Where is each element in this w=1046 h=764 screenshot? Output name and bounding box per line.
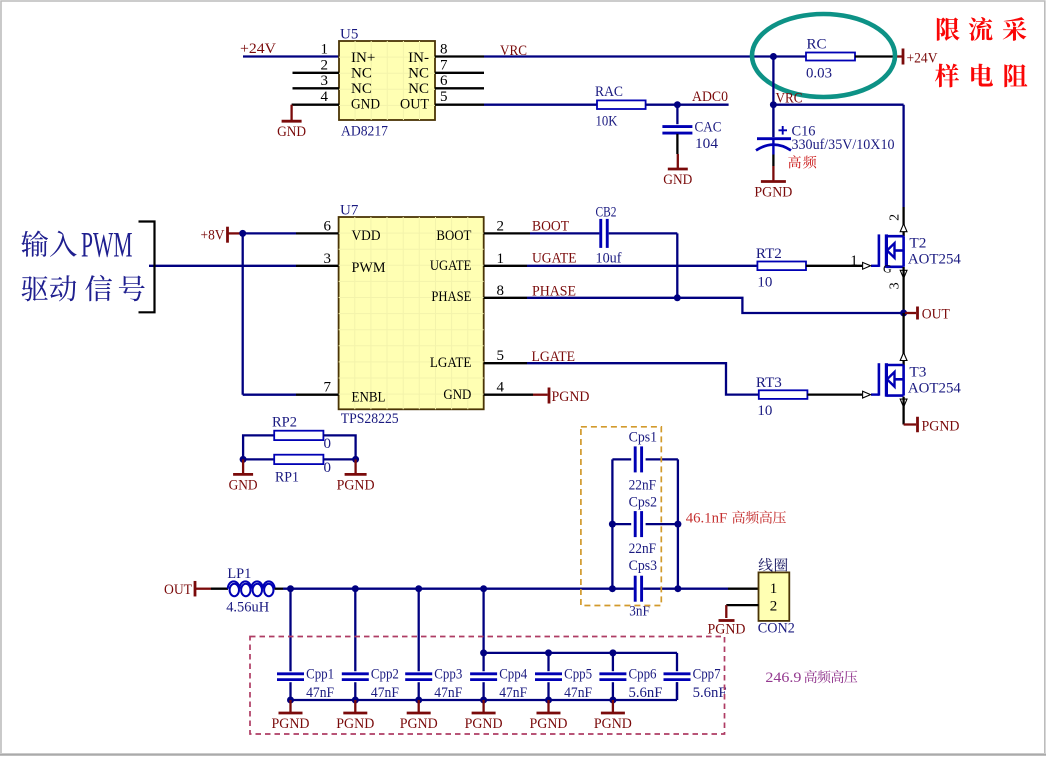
- svg-text:47nF: 47nF: [371, 685, 399, 701]
- svg-text:NC: NC: [351, 66, 372, 82]
- wire RP2 right: [323, 435, 355, 459]
- transistor T2: [878, 234, 881, 267]
- chip U5 grid: [354, 41, 356, 120]
- svg-text:10: 10: [757, 274, 772, 290]
- wire BOOT: [484, 232, 530, 234]
- ground symbol GND below RP1: [242, 459, 244, 473]
- node ADC0 junction: [674, 101, 681, 108]
- ground symbol PGND under Cpp at x=355.3: [354, 700, 356, 712]
- wire T2 source rail to OUT: [902, 267, 904, 313]
- svg-text:ADC0: ADC0: [692, 89, 728, 105]
- svg-text:246.9: 246.9: [765, 670, 801, 686]
- U7 pin4 GND wire: [484, 394, 533, 396]
- resistor RC 0.03: [806, 53, 855, 61]
- svg-text:T3: T3: [909, 364, 926, 380]
- svg-text:TPS28225: TPS28225: [341, 411, 399, 427]
- U5 pin 3 stub: [293, 87, 340, 89]
- power port PGND at U7 pin4: [548, 388, 551, 404]
- wire RC to +24V port: [855, 55, 895, 57]
- wire VRC net U5 pin8 to RC junction: [484, 55, 773, 57]
- svg-text:RT3: RT3: [756, 375, 782, 391]
- svg-text:+24V: +24V: [240, 41, 276, 57]
- capacitor Cpp5: [535, 672, 562, 675]
- wire Cps left rail: [611, 459, 613, 588]
- svg-text:GND: GND: [443, 387, 471, 403]
- svg-text:LP1: LP1: [227, 566, 251, 582]
- svg-text:PGND: PGND: [530, 716, 568, 732]
- wire Cpp top bus: [484, 652, 677, 654]
- capacitor C16 (polarized): [772, 105, 774, 138]
- svg-text:PGND: PGND: [708, 621, 746, 637]
- blue annotation line1: shu ru PWM: [21, 230, 48, 256]
- svg-text:330uf/35V/10X10: 330uf/35V/10X10: [792, 137, 895, 153]
- svg-text:VDD: VDD: [352, 228, 381, 244]
- svg-text:PGND: PGND: [754, 185, 792, 201]
- wire RT2 to T2 gate: [806, 265, 862, 267]
- wire +8V down to ENBL: [242, 233, 244, 394]
- node VRC-C16 junction: [770, 101, 777, 108]
- U5 pin 5 stub: [435, 104, 484, 106]
- capacitor Cpp3: [405, 672, 432, 675]
- svg-text:47nF: 47nF: [306, 685, 334, 701]
- svg-text:AD8217: AD8217: [341, 124, 388, 140]
- U7 pin3 stub: [296, 265, 339, 267]
- svg-text:NC: NC: [351, 81, 372, 97]
- red annotation line1 (xian liu cai): [937, 17, 960, 40]
- svg-text:7: 7: [324, 380, 332, 396]
- ground symbol PGND under Cpp at x=483.6: [482, 700, 484, 712]
- wire Cpp5 lead: [547, 682, 549, 700]
- svg-text:10K: 10K: [596, 114, 618, 130]
- svg-text:8: 8: [440, 42, 448, 58]
- svg-text:Cpp5: Cpp5: [564, 666, 592, 682]
- svg-text:2: 2: [770, 599, 778, 615]
- node top bus junctions: [480, 649, 487, 656]
- capacitor Cpp7: [664, 672, 691, 675]
- wire Cps right rail: [677, 459, 679, 588]
- svg-text:4: 4: [497, 380, 505, 396]
- wire LGATE to RT3: [484, 362, 527, 364]
- svg-text:RT2: RT2: [756, 246, 782, 262]
- svg-text:2: 2: [497, 219, 505, 235]
- wire PHASE: [484, 297, 527, 299]
- svg-text:8: 8: [497, 283, 505, 299]
- capacitor Cpp2: [342, 672, 369, 675]
- wire Cpp6 lead: [612, 682, 614, 700]
- svg-text:OUT: OUT: [164, 582, 192, 598]
- svg-text:10: 10: [757, 403, 772, 419]
- svg-text:IN+: IN+: [351, 50, 375, 66]
- wire VRC vertical rail: [772, 57, 774, 105]
- U7 pin7 stub: [296, 394, 339, 396]
- input bracket: [139, 222, 155, 313]
- capacitor Cpp6: [599, 672, 626, 675]
- svg-text:47nF: 47nF: [564, 685, 592, 701]
- capacitor Cps2: [612, 523, 631, 525]
- capacitor Cpp1: [277, 672, 304, 675]
- svg-text:PGND: PGND: [922, 418, 960, 434]
- power port PGND at T3: [916, 417, 919, 433]
- wire T3 source to PGND: [902, 397, 904, 425]
- wire Cpp3 drop: [418, 589, 420, 672]
- svg-text:5.6nF: 5.6nF: [693, 685, 727, 701]
- node +8V junction: [239, 230, 246, 237]
- svg-text:OUT: OUT: [400, 97, 429, 113]
- svg-text:PGND: PGND: [465, 716, 503, 732]
- ground symbol GND at U5 pin 4: [290, 105, 292, 121]
- svg-text:0.03: 0.03: [806, 66, 832, 82]
- svg-text:6: 6: [324, 219, 332, 235]
- wire RT3 to T3 gate: [807, 393, 862, 395]
- red annotation line2 (yang dian zu): [935, 64, 959, 88]
- wire Cpp7 lead: [676, 682, 678, 700]
- wire Cpp3 lead: [418, 682, 420, 700]
- wire Cpp5 drop: [547, 653, 549, 671]
- ground symbol PGND under Cpp at x=290.5: [289, 700, 291, 712]
- svg-text:BOOT: BOOT: [436, 228, 471, 244]
- wire ADC0 stub: [677, 104, 728, 106]
- svg-text:GND: GND: [663, 172, 692, 188]
- C16 plus sign: [779, 129, 788, 131]
- power port OUT: [905, 312, 916, 314]
- svg-text:UGATE: UGATE: [430, 258, 472, 274]
- wire PWM input: [149, 265, 296, 267]
- svg-text:104: 104: [695, 136, 719, 152]
- capacitor CB2: [599, 219, 602, 248]
- svg-text:PGND: PGND: [336, 716, 374, 732]
- wire RP1 right: [323, 458, 355, 460]
- svg-text:PHASE: PHASE: [431, 289, 471, 305]
- svg-text:PGND: PGND: [594, 716, 632, 732]
- svg-text:46.1nF: 46.1nF: [686, 511, 728, 527]
- wire junction to RC: [773, 55, 806, 57]
- svg-text:6: 6: [440, 73, 448, 89]
- svg-text:0: 0: [324, 436, 332, 452]
- svg-text:GND: GND: [351, 97, 380, 113]
- node OUT junction: [900, 310, 907, 317]
- svg-text:GND: GND: [229, 477, 258, 493]
- svg-text:Cps2: Cps2: [629, 495, 658, 511]
- svg-text:U7: U7: [340, 203, 359, 219]
- wire UGATE to RT2: [484, 265, 527, 267]
- svg-text:G: G: [883, 261, 892, 275]
- U5 pin 8 stub: [435, 55, 484, 57]
- U5 pin 2 stub: [293, 72, 340, 74]
- capacitor CAC: [676, 105, 678, 125]
- svg-text:1: 1: [770, 581, 778, 597]
- svg-text:NC: NC: [408, 66, 429, 82]
- svg-text:AOT254: AOT254: [908, 252, 961, 268]
- svg-text:LGATE: LGATE: [430, 355, 472, 371]
- wire OUT bus: [275, 588, 283, 590]
- svg-text:1: 1: [321, 42, 329, 58]
- U5 pin 6 stub: [435, 87, 484, 89]
- svg-text:AOT254: AOT254: [908, 380, 961, 396]
- wire Cpp2 drop: [354, 589, 356, 672]
- chip U7 grid: [354, 217, 356, 409]
- svg-text:5.6nF: 5.6nF: [629, 685, 663, 701]
- svg-text:Cps1: Cps1: [629, 429, 658, 445]
- svg-text:BOOT: BOOT: [532, 219, 569, 235]
- svg-text:PWM: PWM: [81, 225, 133, 265]
- svg-text:3: 3: [888, 282, 903, 289]
- transistor T3: [878, 363, 881, 396]
- svg-text:10uf: 10uf: [596, 251, 622, 267]
- wire Cpp1 drop: [289, 589, 291, 672]
- wire +24V to U5 pin1: [243, 55, 339, 57]
- svg-text:OUT: OUT: [922, 306, 950, 322]
- svg-text:RAC: RAC: [595, 84, 623, 100]
- C16 note gaopin (red): [788, 155, 801, 168]
- node Cps2 junctions: [609, 521, 616, 528]
- svg-text:RP2: RP2: [272, 415, 297, 431]
- U5 pin 7 stub: [435, 72, 484, 74]
- resistor RP2: [274, 431, 323, 440]
- svg-text:1: 1: [497, 251, 505, 267]
- highlight ellipse around RC: [752, 14, 895, 97]
- blue annotation line2: qu dong xin hao: [22, 276, 48, 301]
- svg-text:47nF: 47nF: [499, 685, 527, 701]
- resistor RAC: [597, 100, 646, 109]
- svg-text:T2: T2: [909, 236, 926, 252]
- filter box (magenta dashed): [250, 637, 725, 735]
- svg-text:Cpp6: Cpp6: [629, 666, 657, 682]
- svg-text:ENBL: ENBL: [352, 389, 386, 405]
- svg-text:7: 7: [440, 58, 448, 74]
- wire OUT to T3 drain rail: [902, 313, 904, 365]
- svg-text:RC: RC: [807, 37, 827, 53]
- chip U5 body: [339, 41, 435, 120]
- chip U7 body: [339, 217, 484, 409]
- node RP left junction: [240, 456, 247, 463]
- wire VRC to T2 drain rail corner: [773, 104, 903, 106]
- svg-text:5: 5: [497, 348, 505, 364]
- resistor RT3: [759, 390, 808, 399]
- wire Cpp7 drop: [676, 653, 678, 671]
- ground symbol PGND under Cpp at x=418.7: [418, 700, 420, 712]
- wire +8V to VDD: [243, 232, 296, 234]
- svg-text:5: 5: [440, 89, 448, 105]
- wire Cpp4 lead: [482, 682, 484, 700]
- resistor RT2: [757, 262, 806, 271]
- svg-text:2: 2: [321, 58, 329, 74]
- svg-text:PGND: PGND: [272, 716, 310, 732]
- capacitor Cps3: [634, 576, 637, 602]
- node PHASE-CB2 junction: [674, 294, 681, 301]
- svg-text:IN-: IN-: [408, 50, 429, 66]
- node VRC-RC junction: [770, 53, 777, 60]
- svg-text:PGND: PGND: [337, 477, 375, 493]
- power port +24V (right): [902, 49, 905, 65]
- capacitor Cps1: [612, 458, 631, 460]
- ground symbol PGND below RP1 right: [354, 459, 356, 473]
- wire RP1 left: [243, 458, 274, 460]
- svg-text:4.56uH: 4.56uH: [226, 600, 269, 616]
- svg-text:0: 0: [324, 460, 332, 476]
- wire Cpp2 lead: [354, 682, 356, 700]
- svg-text:GND: GND: [277, 124, 306, 140]
- svg-text:22nF: 22nF: [629, 477, 657, 493]
- inductor LP1: [228, 581, 275, 588]
- svg-text:Cpp2: Cpp2: [371, 666, 399, 682]
- snubber box (orange dashed): [581, 427, 661, 606]
- capacitor Cpp4: [470, 672, 497, 675]
- ground symbol GND below CAC: [677, 154, 679, 168]
- svg-text:+24V: +24V: [907, 51, 938, 67]
- svg-text:NC: NC: [408, 81, 429, 97]
- svg-text:3: 3: [321, 73, 329, 89]
- ground bar PGND at CON2: [719, 619, 735, 622]
- node RP right junction: [352, 456, 359, 463]
- svg-text:PGND: PGND: [400, 716, 438, 732]
- ground symbol PGND under Cpp at x=612.9: [612, 700, 614, 712]
- svg-text:1: 1: [850, 253, 858, 269]
- svg-text:CAC: CAC: [695, 120, 722, 136]
- svg-text:U5: U5: [340, 27, 358, 43]
- svg-text:PWM: PWM: [352, 260, 386, 276]
- wire Cpp6 drop: [612, 653, 614, 671]
- svg-text:3: 3: [324, 251, 332, 267]
- svg-text:CON2: CON2: [758, 621, 795, 637]
- U5 pin 4 stub: [292, 104, 339, 106]
- node bottom bus junctions: [287, 697, 294, 704]
- svg-text:47nF: 47nF: [434, 685, 462, 701]
- ground symbol PGND under Cpp at x=548.5: [547, 700, 549, 712]
- U7 pin6 stub: [296, 232, 339, 234]
- wire Cpp1 lead: [289, 682, 291, 700]
- node bus junctions: [287, 585, 294, 592]
- wire T2 drain rail vertical: [902, 105, 904, 207]
- svg-text:PGND: PGND: [552, 389, 590, 405]
- svg-text:UGATE: UGATE: [532, 251, 577, 267]
- resistor RP1: [274, 455, 323, 464]
- svg-text:+8V: +8V: [201, 228, 225, 244]
- svg-text:Cpp1: Cpp1: [306, 666, 334, 682]
- wire CB2 to corner: [609, 232, 678, 234]
- svg-text:2: 2: [888, 214, 903, 221]
- CON2 label xianquan: [759, 558, 773, 572]
- wire bottom bus: [291, 699, 678, 701]
- wire RP2 left: [243, 435, 274, 459]
- svg-text:Cpp3: Cpp3: [434, 666, 462, 682]
- wire RAC to junction: [646, 104, 678, 106]
- wire U5 pin5 to RAC: [484, 104, 597, 106]
- svg-text:Cpp7: Cpp7: [693, 666, 721, 682]
- wire Cpp4 drop: [482, 589, 484, 672]
- svg-text:CB2: CB2: [596, 205, 617, 221]
- connector CON2 body: [759, 572, 790, 621]
- svg-text:4: 4: [321, 89, 329, 105]
- wire CON2 pin2 to PGND: [726, 604, 758, 606]
- ground symbol PGND below C16: [772, 166, 774, 181]
- svg-text:Cpp4: Cpp4: [499, 666, 527, 682]
- svg-text:22nF: 22nF: [629, 541, 657, 557]
- svg-text:Cps3: Cps3: [629, 558, 658, 574]
- svg-text:RP1: RP1: [275, 470, 299, 486]
